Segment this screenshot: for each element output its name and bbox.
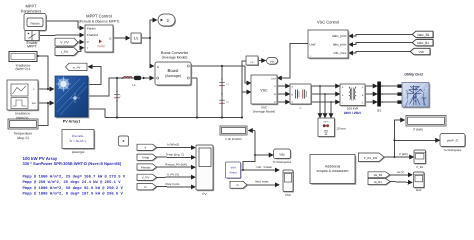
svg-text:(Average Model): (Average Model) <box>253 110 275 114</box>
svg-text:260V / 25kV: 260V / 25kV <box>344 111 362 115</box>
svg-text:10 kvar: 10 kvar <box>337 127 346 131</box>
svg-text:To Workspace1: To Workspace1 <box>273 161 292 164</box>
svg-text:Vdc_mes: Vdc_mes <box>333 51 346 55</box>
svg-text:Vdc: Vdc <box>418 50 424 54</box>
svg-text:I: I <box>87 46 88 50</box>
svg-text:To Workspace: To Workspace <box>444 148 462 152</box>
svg-text:V_PV (V): V_PV (V) <box>167 173 179 177</box>
svg-text:Va (V): Va (V) <box>397 171 404 174</box>
svg-text:Va_B1: Va_B1 <box>374 173 383 177</box>
svg-text:pwrP_G: pwrP_G <box>447 139 459 143</box>
svg-text:powergui: powergui <box>72 150 85 154</box>
svg-text:C2: C2 <box>226 101 230 104</box>
svg-text:PV: PV <box>202 192 207 196</box>
svg-text:Param: Param <box>30 21 40 25</box>
svg-text:C: C <box>120 95 122 98</box>
svg-text:Ia_B1: Ia_B1 <box>374 180 382 184</box>
svg-text:Boost: Boost <box>168 68 180 73</box>
svg-text:Temperature: Temperature <box>14 132 33 136</box>
svg-text:Temp: Temp <box>142 156 150 160</box>
svg-text:scopes & measurem: scopes & measurem <box>317 169 349 173</box>
svg-text:P (kW): P (kW) <box>399 152 408 156</box>
svg-text:P (kW): P (kW) <box>413 127 422 131</box>
svg-text:Uref: Uref <box>271 77 276 80</box>
svg-text:Vdc: Vdc <box>270 60 275 64</box>
svg-text:Discrete,: Discrete, <box>72 134 84 138</box>
svg-text:Vref: Vref <box>230 165 235 169</box>
svg-text:Boost Converter: Boost Converter <box>161 51 189 55</box>
svg-text:B1: B1 <box>377 108 381 112</box>
svg-text:Vabc_B1: Vabc_B1 <box>417 33 430 37</box>
svg-text:Iabc_B1: Iabc_B1 <box>417 41 429 45</box>
svg-text:(Perturb & Observe MPPT): (Perturb & Observe MPPT) <box>79 20 120 24</box>
svg-text:VSC Control: VSC Control <box>317 19 339 24</box>
svg-text:Ir: Ir <box>145 146 147 150</box>
svg-text:MPPT: MPPT <box>27 44 38 48</box>
svg-text:V dc Inverter: V dc Inverter <box>225 137 242 141</box>
svg-text:Ir (W/m2): Ir (W/m2) <box>167 143 179 147</box>
svg-text:(W/m2)1: (W/m2)1 <box>16 116 29 120</box>
svg-text:V_PV: V_PV <box>60 41 69 45</box>
svg-text:(Average): (Average) <box>165 74 181 78</box>
svg-text:100 kVA: 100 kVA <box>347 106 359 110</box>
svg-text:P_B1_kW: P_B1_kW <box>364 156 378 160</box>
svg-text:Utility Grid: Utility Grid <box>404 73 423 77</box>
svg-text:Mod. Index: Mod. Index <box>255 181 269 184</box>
svg-text:V_PV: V_PV <box>142 176 150 180</box>
svg-text:Duty Cycle: Duty Cycle <box>166 182 180 186</box>
svg-text:C: C <box>274 101 276 104</box>
svg-text:Vdy: Vdy <box>279 152 285 156</box>
svg-text:(Average Model): (Average Model) <box>162 56 188 60</box>
svg-text:(W/m^2):1: (W/m^2):1 <box>15 67 30 71</box>
svg-text:Param: Param <box>87 26 96 30</box>
svg-text:Pmpp @ 1000 W/m^2, 0 deg= 107: Pmpp @ 1000 W/m^2, 0 deg= 107.5 kW @ 296… <box>23 192 124 197</box>
svg-text:VSC: VSC <box>260 89 268 93</box>
svg-text:Pmean: Pmean <box>141 165 151 169</box>
svg-text:Perd(): Perd() <box>97 45 104 48</box>
svg-text:Pmpp @ 250 W/m^2, 25 deg= 24: Pmpp @ 250 W/m^2, 25 deg= 24.4 kW @ 265.… <box>23 180 122 185</box>
svg-text:Additional: Additional <box>325 164 341 168</box>
svg-text:Grid: Grid <box>416 188 422 192</box>
svg-text:1/z: 1/z <box>134 37 139 41</box>
svg-text:L: L <box>300 105 302 109</box>
svg-text:Irradiance: Irradiance <box>15 112 30 116</box>
svg-text:VSC: VSC <box>285 193 292 197</box>
svg-text:D: D <box>157 66 159 69</box>
svg-text:L1: L1 <box>132 83 136 87</box>
svg-text:Iabc_prim: Iabc_prim <box>333 43 347 47</box>
svg-text:Pmpp @ 1000 W/m^2, 25 deg= 100: Pmpp @ 1000 W/m^2, 25 deg= 100.7 kW @ 27… <box>23 175 126 180</box>
svg-text:Enabled: Enabled <box>87 33 98 37</box>
svg-text:MPPT Control: MPPT Control <box>86 14 112 19</box>
svg-text:(deg. C): (deg. C) <box>17 136 29 140</box>
svg-text:D: D <box>167 19 170 23</box>
svg-text:Pmpp @ 1000 W/m^2, 50 deg= 92: Pmpp @ 1000 W/m^2, 50 deg= 92.9 kW @ 250… <box>23 186 124 191</box>
svg-text:Vmea: Vmea <box>229 170 237 174</box>
svg-text:Uref: Uref <box>310 42 316 46</box>
svg-text:Ts = 5e-05 s.: Ts = 5e-05 s. <box>69 139 87 143</box>
svg-text:PV Array1: PV Array1 <box>63 120 81 124</box>
svg-text:Parameters: Parameters <box>21 8 42 13</box>
svg-text:I_PV: I_PV <box>61 50 69 54</box>
svg-text:A B C: A B C <box>323 121 329 124</box>
svg-text:Vref - Vmean: Vref - Vmean <box>256 166 272 169</box>
svg-text:Temp (deg. C): Temp (deg. C) <box>166 153 184 157</box>
svg-text:P_B1: P_B1 <box>416 165 423 169</box>
svg-text:+v-: +v- <box>250 60 254 64</box>
svg-text:V: V <box>87 40 89 44</box>
svg-text:Tem: Tem <box>31 102 36 105</box>
svg-text:C1: C1 <box>226 83 230 86</box>
svg-text:Pmean_PV (kW): Pmean_PV (kW) <box>165 162 187 166</box>
svg-text:Vabc_prim: Vabc_prim <box>332 34 347 38</box>
svg-text:Ir: Ir <box>33 88 35 91</box>
svg-text:330 * SunPower SPR-305E-WHT-D: 330 * SunPower SPR-305E-WHT-D (Nser=5 Np… <box>23 161 122 166</box>
svg-text:m_PV: m_PV <box>73 65 81 69</box>
